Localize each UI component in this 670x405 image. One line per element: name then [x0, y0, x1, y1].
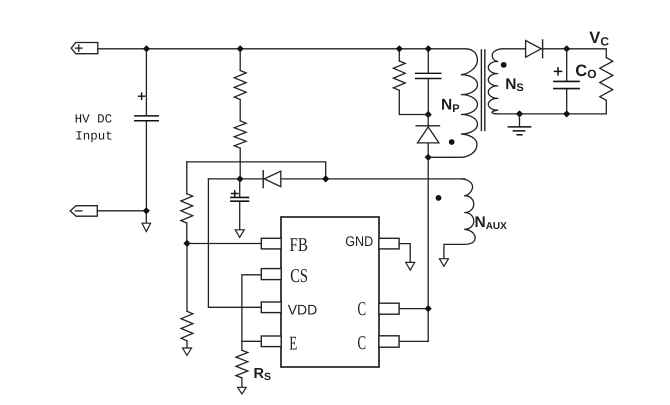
wire negative rail	[97, 210, 146, 212]
capacitor Cin	[145, 49, 147, 211]
ground GND pin	[406, 262, 415, 270]
resistor RS	[236, 350, 248, 378]
svg-text:C: C	[358, 299, 367, 320]
wire aux bridge top	[187, 162, 326, 179]
svg-text:NS: NS	[505, 76, 524, 94]
wire VDD drop	[208, 179, 261, 307]
wire Vc rail	[541, 49, 606, 58]
node J6 right of diode	[322, 175, 329, 182]
wire CS net	[242, 275, 261, 350]
node input minus junction	[145, 211, 147, 223]
svg-text:VC: VC	[589, 29, 609, 48]
winding NP primary	[450, 49, 478, 158]
svg-text:CO: CO	[575, 62, 596, 81]
svg-text:NP: NP	[441, 97, 460, 115]
label HV DC Input	[75, 112, 113, 143]
svg-text:Input: Input	[75, 130, 113, 144]
label FB	[288, 233, 374, 355]
node J8 snubber top	[396, 45, 403, 52]
svg-text:GND: GND	[345, 233, 373, 249]
svg-text:FB: FB	[290, 235, 309, 256]
diode D1 clamp (cathode up)	[427, 115, 429, 158]
pin VDD	[261, 302, 281, 313]
transformer core	[481, 50, 484, 130]
node J1 top of Cin	[143, 45, 150, 52]
svg-text:CS: CS	[290, 266, 308, 287]
label Vc	[589, 29, 609, 48]
resistor R5 snubber	[399, 49, 428, 115]
wire NS top to diode	[503, 48, 526, 50]
svg-text:VDD: VDD	[288, 301, 318, 317]
IC U1 body	[281, 217, 379, 367]
terminal + (HV DC input positive)	[71, 43, 98, 54]
node J4 FB tap	[183, 240, 190, 247]
pin GND	[379, 238, 399, 249]
wire NP bottom	[428, 156, 450, 158]
label NP	[441, 97, 460, 115]
capacitor Co	[566, 49, 568, 114]
wire VDD row y=178.9	[208, 178, 464, 180]
pin CS	[261, 269, 281, 280]
node NAUX phase dot	[436, 195, 442, 201]
winding NAUX auxiliary	[444, 179, 475, 259]
wire GND pin	[399, 244, 410, 263]
node J9 snubber cap top	[425, 45, 432, 52]
resistor R3 (divider upper)	[181, 194, 193, 223]
label NAUX	[475, 214, 508, 232]
diode D2 (VDD rectifier, cathode left)	[262, 171, 264, 188]
node J14 out bottom mid	[563, 110, 570, 117]
resistor R1 (upper of HV sense chain)	[234, 71, 246, 100]
ground VDD cap	[235, 230, 244, 238]
node J3 chain top	[237, 45, 244, 52]
svg-text:NAUX: NAUX	[475, 214, 508, 232]
wire drain vertical	[427, 157, 429, 341]
ground RS	[238, 387, 247, 394]
diode D3 output (pointing right)	[526, 41, 542, 58]
pin C upper	[379, 303, 399, 314]
node J2 input minus	[143, 207, 150, 214]
node J5 vdd cap junction	[236, 175, 243, 182]
node NS phase dot	[501, 62, 507, 68]
wire top rail	[98, 48, 466, 50]
winding NS secondary	[488, 49, 502, 114]
svg-text:E: E	[289, 334, 297, 355]
label Co	[575, 62, 596, 81]
node NP phase dot	[449, 139, 455, 145]
wire E row	[242, 340, 261, 342]
wire resistor chain drop	[239, 49, 241, 179]
node J11 drain top	[425, 154, 432, 161]
svg-text:RS: RS	[254, 366, 272, 383]
resistor R7 load	[600, 58, 613, 101]
node J7 drain/C	[425, 305, 432, 312]
pin C lower	[379, 336, 399, 347]
svg-text:C: C	[358, 333, 367, 354]
terminal - (HV DC input negative)	[70, 206, 97, 217]
capacitor C2 (VDD)	[239, 179, 241, 230]
ground earth secondary	[519, 114, 521, 127]
node J10 clamp top	[425, 111, 432, 118]
pin FB	[261, 238, 281, 249]
svg-text:HV DC: HV DC	[75, 112, 113, 126]
resistor R2 (lower of HV sense chain)	[234, 121, 246, 148]
wire FB to tap	[187, 243, 261, 245]
ground NAUX	[439, 259, 448, 267]
pin E	[261, 336, 281, 347]
node J12 Vc	[563, 45, 570, 52]
resistor R4 (divider lower)	[181, 311, 193, 341]
wire output bottom rail	[499, 113, 606, 115]
label RS	[254, 366, 272, 383]
ground divider	[183, 348, 192, 355]
capacitor C3 snubber	[427, 49, 429, 115]
node J13 out bottom left	[516, 110, 523, 117]
wire C pins to drain	[399, 309, 428, 342]
label NS	[505, 76, 524, 94]
wire left divider drop	[186, 162, 188, 348]
